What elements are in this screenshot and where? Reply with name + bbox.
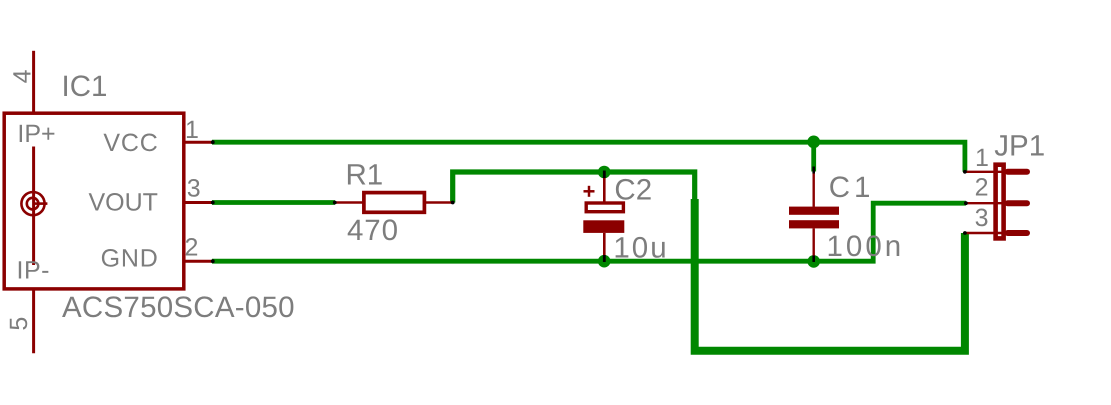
svg-text:3: 3: [975, 204, 989, 232]
svg-text:VCC: VCC: [103, 129, 158, 157]
svg-text:GND: GND: [101, 245, 159, 273]
svg-text:3: 3: [187, 175, 201, 203]
svg-text:R1: R1: [346, 159, 384, 192]
svg-text:VOUT: VOUT: [89, 189, 158, 217]
svg-text:1: 1: [975, 144, 989, 172]
svg-text:470: 470: [347, 214, 399, 247]
svg-text:10u: 10u: [613, 232, 668, 265]
svg-text:IP-: IP-: [17, 257, 50, 285]
svg-text:IP+: IP+: [17, 120, 55, 148]
svg-text:ACS750SCA-050: ACS750SCA-050: [62, 291, 295, 324]
svg-text:C1: C1: [829, 171, 875, 204]
svg-text:5: 5: [5, 317, 33, 331]
svg-text:100n: 100n: [827, 230, 905, 263]
svg-text:C2: C2: [614, 173, 652, 206]
svg-text:IC1: IC1: [62, 70, 108, 103]
svg-text:4: 4: [9, 69, 37, 83]
svg-text:JP1: JP1: [994, 130, 1045, 163]
svg-text:1: 1: [185, 116, 199, 144]
svg-text:2: 2: [185, 233, 199, 261]
svg-text:2: 2: [975, 173, 989, 201]
